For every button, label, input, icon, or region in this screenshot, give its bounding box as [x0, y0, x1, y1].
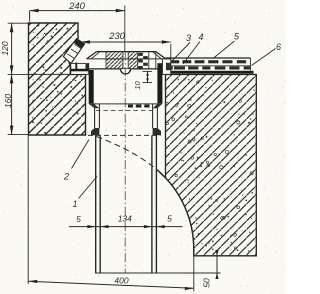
svg-text:4: 4: [198, 32, 203, 42]
svg-text:400: 400: [114, 276, 128, 286]
svg-text:240: 240: [68, 1, 86, 12]
layers right end edge: [250, 58, 252, 71]
curved surface arc solid part: [157, 170, 193, 256]
left bevel inner: [91, 52, 100, 59]
dimension 400: [28, 135, 194, 291]
right bevel inner: [153, 52, 162, 59]
callout 1: [72, 177, 97, 210]
caulked joint dashes: [128, 105, 150, 108]
left bevel outer: [87, 52, 97, 59]
waterproofing black strip: [169, 71, 254, 74]
dimension 50: [202, 250, 219, 288]
tile dash row 2: [171, 66, 250, 69]
checker packing: [138, 53, 148, 69]
grate hatched box left: [107, 52, 123, 68]
dimension 240: [30, 1, 125, 22]
tile dash row 1: [171, 60, 246, 63]
callout 5: [213, 32, 240, 59]
callout 3: [171, 33, 191, 62]
left flange lip: [70, 63, 89, 75]
grate top surface: [97, 51, 156, 53]
svg-text:120: 120: [0, 41, 10, 55]
pipe wall right double line: [152, 135, 157, 273]
drain body interior socket line: [94, 103, 158, 105]
joint line in left wall: [29, 73, 71, 75]
grate hatched box right: [129, 52, 138, 68]
socket joint transition right: [153, 104, 163, 108]
curved surface arc dashed hidden part: [97, 137, 158, 171]
grate assembly: [87, 52, 166, 74]
svg-text:5: 5: [167, 214, 172, 224]
svg-text:6: 6: [276, 42, 281, 52]
svg-text:5: 5: [76, 214, 81, 224]
center axis line: [124, 6, 126, 52]
center semicircle notch: [121, 69, 131, 74]
svg-text:134: 134: [118, 214, 132, 224]
dimension 120 / 160: [0, 23, 29, 134]
pipe wall left double line: [96, 135, 101, 273]
svg-text:3: 3: [186, 33, 191, 43]
grate underside line: [89, 68, 163, 70]
left concrete wall block: [29, 23, 86, 135]
drain body black wall left: [89, 70, 94, 104]
clamp dark top end: [74, 39, 85, 49]
right block speckle dots: [166, 79, 255, 252]
right bevel outer: [156, 52, 166, 59]
left wall speckle dots: [30, 25, 85, 134]
dimension 10: [133, 71, 152, 89]
drain socket walls: [95, 104, 158, 128]
drain body black wall right: [157, 63, 162, 104]
callout 2: [63, 140, 89, 182]
tile floor top surface: [166, 57, 251, 59]
right concrete block: [157, 75, 256, 256]
right flange lip: [162, 59, 170, 75]
callout 6: [252, 42, 282, 66]
hidden bottom edge dashed: [88, 134, 161, 136]
socket joint transition left: [89, 104, 100, 108]
svg-text:1: 1: [72, 199, 77, 209]
seat line: [87, 58, 166, 60]
socket flare right: [153, 128, 161, 135]
grate internal dividers: [106, 52, 156, 69]
socket flare left: [91, 128, 99, 135]
thin bed line: [169, 65, 251, 67]
left clamp flange (sloped, hatched): [63, 39, 84, 64]
svg-text:10: 10: [133, 81, 142, 90]
svg-text:50: 50: [202, 278, 212, 288]
dimension 230: [81, 31, 171, 59]
floor tile layers top right: [166, 58, 254, 74]
svg-text:160: 160: [3, 94, 13, 108]
interior dashed line: [96, 110, 156, 112]
dimension 5 134 5: [69, 214, 183, 229]
callout 4: [183, 32, 204, 64]
pipe open end bottom line + extension to 50 dim: [95, 272, 220, 274]
svg-text:230: 230: [108, 31, 126, 42]
